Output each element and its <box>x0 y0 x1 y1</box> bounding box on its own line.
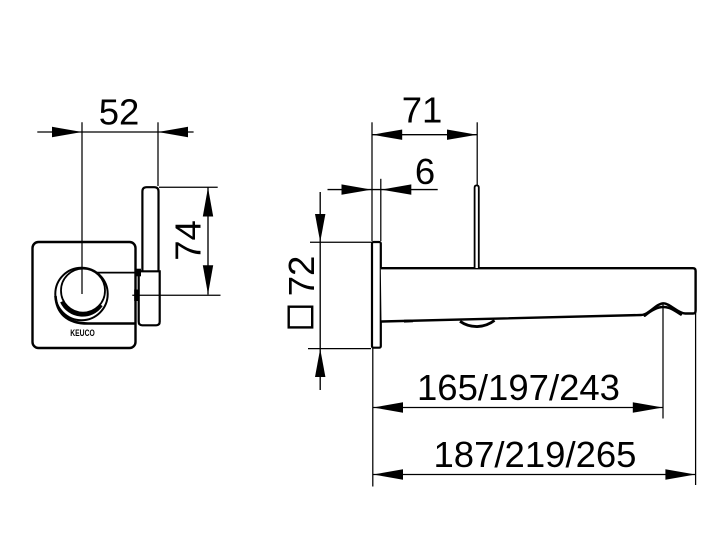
dimension 165/197/243 line <box>373 407 663 409</box>
dimension 165 right arrow <box>633 402 663 412</box>
lever hub base block <box>139 271 160 325</box>
dimension 6 right arrow <box>381 184 411 194</box>
control rod on spout top <box>475 185 479 268</box>
dimension 187/219/265 text <box>434 434 637 475</box>
extension line flange right vertical <box>380 179 382 241</box>
dimension 6 text <box>415 151 435 192</box>
hub pivot pin detail <box>134 290 139 302</box>
handle arm top line <box>96 271 160 272</box>
KEUCO logo text <box>70 328 95 338</box>
dimension 74 top arrow <box>203 188 213 217</box>
dimension 72 top extension line <box>310 241 372 243</box>
dimension 72 upper arrow <box>315 214 325 242</box>
knob crescent shading arc <box>62 302 101 315</box>
dimension 72 bottom extension line <box>308 348 371 350</box>
svg-text:74: 74 <box>168 220 209 261</box>
spout wall flange (side view) <box>372 242 381 348</box>
dimension 165 left arrow <box>373 402 403 412</box>
dimension 72 lower arrow <box>315 349 325 377</box>
dimension 71 right arrow <box>447 130 477 140</box>
seam detail on spout underside <box>404 319 413 322</box>
dimension 187 left arrow <box>373 469 403 479</box>
dimension 72 line <box>319 192 321 390</box>
dimension 52 left arrow <box>52 127 82 137</box>
dimension 165/197/243 text <box>417 367 620 408</box>
svg-text:KEUCO: KEUCO <box>70 328 95 338</box>
dimension 187 right arrow <box>665 469 695 479</box>
dimension 74 top extension line <box>159 186 218 188</box>
svg-text:165/197/243: 165/197/243 <box>417 367 620 408</box>
dimension 52 right arrow <box>158 127 188 137</box>
dimension 74 line <box>207 187 209 294</box>
dimension 74 text <box>168 220 209 261</box>
spout body outline <box>381 268 696 321</box>
handle sweep curve to hub <box>56 296 136 324</box>
svg-text:187/219/265: 187/219/265 <box>434 434 637 475</box>
dimension 71 text <box>402 90 443 131</box>
dimension 52 line <box>37 131 193 133</box>
dimension 6 left arrow <box>342 184 372 194</box>
extension line aerator center vertical <box>662 305 664 419</box>
dimension 71 line <box>372 134 477 136</box>
dimension 71 left arrow <box>372 130 402 140</box>
dimension 6 line <box>328 189 438 191</box>
svg-text:71: 71 <box>402 90 443 131</box>
knob inner circle <box>61 269 105 313</box>
dimension 187/219/265 line <box>373 474 696 476</box>
svg-text:52: 52 <box>99 92 140 133</box>
aerator bowl under spout <box>460 320 495 326</box>
svg-text:72: 72 <box>281 256 322 297</box>
extension line flange left vertical <box>371 122 373 241</box>
dimension 74 bottom arrow <box>203 265 213 294</box>
extension line knob center vertical <box>81 122 83 294</box>
spout tip inner curve <box>645 307 681 316</box>
knob outer circle <box>55 268 107 320</box>
knob center line horizontal <box>132 294 220 296</box>
extension line spout tip vertical <box>695 313 697 485</box>
extension line rod vertical <box>476 122 478 185</box>
svg-text:6: 6 <box>415 151 435 192</box>
dimension 72 text <box>281 256 322 297</box>
hub joint detail upper <box>135 269 141 277</box>
extension line lever right vertical <box>157 122 159 186</box>
square section symbol <box>289 307 313 328</box>
escutcheon plate (front view) <box>33 242 136 348</box>
extension line wall plane vertical <box>372 348 374 487</box>
dimension 52 text <box>99 92 140 133</box>
lever blade <box>142 187 158 272</box>
